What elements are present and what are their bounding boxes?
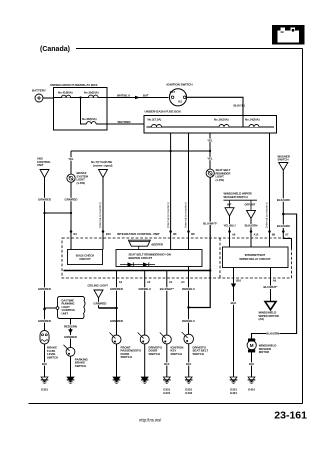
svg-text:WASHER SWITCH: WASHER SWITCH bbox=[224, 195, 248, 199]
wire pin A4 bbox=[187, 267, 189, 335]
svg-text:SWITCH: SWITCH bbox=[278, 158, 289, 162]
svg-text:No.41(80A): No.41(80A) bbox=[58, 90, 73, 94]
svg-text:GRN/RED: GRN/RED bbox=[38, 319, 51, 323]
wire ABS column bbox=[43, 177, 45, 330]
frame bottom edge bbox=[28, 402, 302, 404]
svg-text:UNDER-HOOD FUSE/RELAY BOX: UNDER-HOOD FUSE/RELAY BOX bbox=[50, 83, 98, 87]
ground G351/G401 ignition key bbox=[163, 377, 170, 382]
ground G351/G401 B16 bbox=[230, 377, 237, 382]
ground G351/G402 seat belt bbox=[185, 377, 192, 382]
header rule bbox=[76, 47, 303, 49]
svg-text:A1: A1 bbox=[169, 280, 173, 284]
svg-text:BATTERY: BATTERY bbox=[32, 88, 46, 92]
svg-text:B6: B6 bbox=[173, 232, 177, 236]
svg-text:BLK/GRN: BLK/GRN bbox=[266, 332, 279, 336]
svg-text:GRN/BLU: GRN/BLU bbox=[138, 287, 151, 291]
daytime running light control unit bbox=[57, 296, 85, 318]
svg-text:nttp:/tns.ws/: nttp:/tns.ws/ bbox=[139, 417, 162, 422]
svg-text:SWITCH: SWITCH bbox=[75, 364, 86, 368]
frame right edge bbox=[301, 49, 303, 404]
svg-text:BLU/WHT*: BLU/WHT* bbox=[264, 285, 279, 289]
seat belt reminder light bbox=[209, 133, 211, 169]
wire light down jog to A4 column bbox=[188, 177, 210, 307]
svg-text:UNIT: UNIT bbox=[37, 163, 44, 167]
svg-text:G402: G402 bbox=[185, 391, 192, 395]
svg-text:WIPER RELAY CIRCUIT: WIPER RELAY CIRCUIT bbox=[239, 257, 271, 261]
svg-text:A2: A2 bbox=[147, 280, 151, 284]
svg-text:SWITCH: SWITCH bbox=[47, 355, 58, 359]
svg-text:G401: G401 bbox=[248, 388, 255, 392]
svg-text:(Internal connection): (Internal connection) bbox=[265, 202, 269, 228]
svg-text:GRN/RED: GRN/RED bbox=[38, 287, 51, 291]
brake system light bbox=[70, 151, 72, 174]
svg-text:GRN/RED: GRN/RED bbox=[110, 287, 123, 291]
wire internal connection B10 bbox=[102, 177, 104, 249]
brake fluid level switch bbox=[40, 330, 49, 344]
svg-text:BLK: BLK bbox=[186, 362, 191, 366]
wire fuse row1 bbox=[54, 96, 108, 98]
wire DRL bridge bbox=[44, 308, 56, 309]
wire BLK/YEL drop bbox=[242, 116, 244, 128]
svg-text:YEL: YEL bbox=[68, 157, 74, 161]
intermittent wiper relay circuit box bbox=[222, 247, 288, 268]
svg-text:GRN/RED: GRN/RED bbox=[64, 335, 77, 339]
svg-text:RED/BLU: RED/BLU bbox=[182, 287, 194, 291]
wire bridge ABS-B4 bbox=[45, 212, 72, 214]
wire INT to A8 bbox=[228, 216, 230, 247]
wire pin B16 to ground bbox=[232, 268, 234, 377]
svg-text:No.14(20A): No.14(20A) bbox=[245, 117, 260, 121]
wire WHT/RED bbox=[107, 123, 144, 125]
ground G401 washer motor bbox=[248, 377, 255, 382]
node row1 junction bbox=[79, 96, 81, 98]
svg-text:BLK: BLK bbox=[164, 362, 169, 366]
svg-text:IG1: IG1 bbox=[178, 100, 183, 104]
svg-text:UNDER-DASH FUSE BOX: UNDER-DASH FUSE BOX bbox=[145, 109, 181, 113]
svg-text:BEEPER: BEEPER bbox=[151, 242, 163, 246]
svg-text:M: M bbox=[250, 343, 254, 348]
ground front passenger door bbox=[113, 377, 120, 382]
svg-text:G401: G401 bbox=[230, 391, 237, 395]
svg-text:No.36(50A): No.36(50A) bbox=[84, 90, 99, 94]
node DRL junction bbox=[43, 308, 46, 311]
wire ceiling bus bbox=[98, 307, 116, 309]
svg-text:IGNITION SWITCH: IGNITION SWITCH bbox=[167, 83, 193, 87]
svg-text:BLK: BLK bbox=[231, 301, 237, 305]
svg-text:BAT: BAT bbox=[170, 90, 176, 94]
wire battery to box bbox=[43, 97, 54, 99]
wire internal bus bbox=[147, 126, 275, 128]
svg-text:A8: A8 bbox=[232, 232, 236, 236]
svg-text:A10: A10 bbox=[253, 232, 258, 236]
svg-text:YEL: YEL bbox=[207, 157, 213, 161]
svg-text:BLK: BLK bbox=[249, 362, 254, 366]
svg-text:RED/GRN: RED/GRN bbox=[64, 324, 77, 328]
wire internal connection right B6 bbox=[268, 133, 270, 247]
svg-text:RED/BLU: RED/BLU bbox=[182, 319, 194, 323]
svg-text:BLK: BLK bbox=[42, 362, 47, 366]
svg-text:B6: B6 bbox=[272, 232, 276, 236]
svg-text:A7: A7 bbox=[285, 232, 289, 236]
svg-text:MOTOR: MOTOR bbox=[259, 350, 269, 354]
svg-text:WHT/RED: WHT/RED bbox=[117, 120, 130, 124]
svg-text:A4: A4 bbox=[181, 280, 185, 284]
wire washer bypass to motor bbox=[251, 214, 296, 339]
svg-text:GRN/RED: GRN/RED bbox=[38, 197, 51, 201]
switch INT arrow bbox=[229, 200, 231, 208]
node pin B4 bbox=[70, 230, 73, 233]
svg-text:SWITCH: SWITCH bbox=[148, 352, 159, 356]
svg-text:WHT/BLU: WHT/BLU bbox=[117, 94, 130, 98]
wire washer switch to A7 bbox=[283, 170, 291, 248]
svg-text:No.16(10A): No.16(10A) bbox=[214, 117, 229, 121]
svg-text:(A6): (A6) bbox=[258, 317, 264, 321]
wire brake light to pin B4 bbox=[70, 182, 72, 249]
svg-text:G351: G351 bbox=[41, 388, 48, 392]
svg-text:BEEPER CIRCUIT: BEEPER CIRCUIT bbox=[128, 256, 152, 260]
svg-text:(1.4W): (1.4W) bbox=[216, 178, 224, 182]
svg-text:YEL: YEL bbox=[207, 138, 213, 142]
svg-text:(Internal connection): (Internal connection) bbox=[166, 202, 170, 228]
ground driver door bbox=[141, 377, 148, 382]
svg-text:(1.4W): (1.4W) bbox=[77, 181, 85, 185]
bulb check circuit box bbox=[67, 249, 102, 264]
svg-text:A9: A9 bbox=[273, 279, 277, 283]
svg-text:(Internal connection): (Internal connection) bbox=[184, 202, 188, 228]
ground G351 brake fluid bbox=[41, 377, 48, 382]
wire internal connection B6 bbox=[170, 133, 172, 250]
svg-text:BLU/WHT*: BLU/WHT* bbox=[160, 287, 175, 291]
wire junction down to row2 bbox=[81, 97, 87, 124]
svg-text:CIRCUIT: CIRCUIT bbox=[79, 257, 91, 261]
svg-text:UNIT: UNIT bbox=[61, 311, 68, 315]
svg-text:CEILING LIGHT: CEILING LIGHT bbox=[87, 284, 108, 288]
wire BLK/YEL bbox=[187, 97, 244, 115]
ground parking brake bbox=[67, 377, 74, 382]
diode D1 bbox=[120, 264, 155, 266]
svg-text:BLK/GRN: BLK/GRN bbox=[277, 198, 290, 202]
svg-text:B8: B8 bbox=[191, 232, 195, 236]
svg-text:BLU/WHT*: BLU/WHT* bbox=[203, 221, 218, 225]
svg-text:SWITCH: SWITCH bbox=[120, 355, 131, 359]
wire OFF/INT to A10 bbox=[250, 219, 252, 248]
svg-text:No.38(50A): No.38(50A) bbox=[82, 117, 97, 121]
diode D2 bbox=[143, 262, 149, 266]
wire internal connection B8 bbox=[187, 133, 189, 250]
front passenger door switch column bbox=[110, 287, 123, 290]
svg-text:OFF/INT: OFF/INT bbox=[245, 203, 256, 207]
ignition key switch column bbox=[159, 287, 174, 290]
wire pin A1 bbox=[166, 271, 168, 336]
svg-text:GRN/RED: GRN/RED bbox=[65, 197, 78, 201]
svg-text:BLK/YEL: BLK/YEL bbox=[234, 103, 246, 107]
svg-text:BLK/GRN: BLK/GRN bbox=[245, 224, 258, 228]
svg-text:A3: A3 bbox=[119, 280, 123, 284]
svg-text:GRN/RED: GRN/RED bbox=[94, 301, 107, 305]
svg-text:YEL/BLU: YEL/BLU bbox=[224, 224, 236, 228]
svg-text:(Internal connection): (Internal connection) bbox=[98, 202, 102, 228]
svg-text:(Canada): (Canada) bbox=[40, 46, 70, 53]
windshield washer motor bbox=[248, 339, 255, 342]
svg-text:No.2(7.5A): No.2(7.5A) bbox=[148, 117, 162, 121]
switch OFF/INT arrow bbox=[250, 200, 252, 210]
svg-text:INTEGRATED CONTROL UNIT: INTEGRATED CONTROL UNIT bbox=[117, 232, 160, 236]
svg-text:23-161: 23-161 bbox=[274, 410, 307, 422]
wire pin A2 bbox=[144, 270, 146, 335]
svg-text:BLK/GRN: BLK/GRN bbox=[277, 224, 290, 228]
node feed junction B6 bbox=[169, 150, 171, 152]
driver door switch column bbox=[138, 287, 151, 290]
svg-text:SWITCH: SWITCH bbox=[192, 352, 203, 356]
svg-text:B16: B16 bbox=[236, 279, 241, 283]
svg-text:B4: B4 bbox=[73, 232, 77, 236]
wire ICU internal bus bbox=[63, 269, 210, 271]
wire feed horizontal bbox=[71, 150, 210, 152]
svg-text:BAT: BAT bbox=[143, 94, 149, 98]
svg-text:(starter signal): (starter signal) bbox=[93, 163, 112, 167]
node feed junction YEL bbox=[209, 150, 211, 152]
svg-text:G401: G401 bbox=[163, 391, 170, 395]
parking brake switch column bbox=[69, 318, 71, 347]
wire pin A3 bbox=[115, 270, 117, 308]
svg-text:SWITCH: SWITCH bbox=[170, 352, 181, 356]
wire pin A9 bbox=[269, 268, 271, 302]
svg-text:B10: B10 bbox=[106, 232, 111, 236]
seat belt reminder/key-on beeper circuit box bbox=[116, 249, 202, 266]
driver seat belt switch column bbox=[182, 287, 195, 290]
beeper bbox=[128, 240, 150, 246]
wire WHT/BLU to ignition bbox=[107, 96, 169, 98]
windshield wiper motor arrow bbox=[265, 302, 276, 310]
battery icon page symbol bbox=[272, 25, 305, 45]
